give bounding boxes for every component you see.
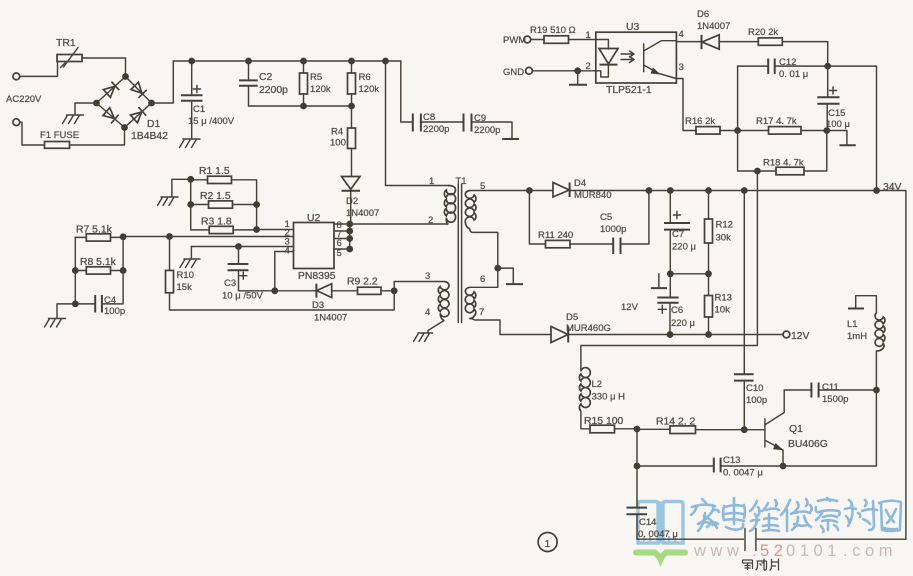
node emitter C13 xyxy=(780,463,787,470)
node C1 top xyxy=(188,58,195,65)
U2 right bus xyxy=(349,224,351,249)
svg-text:1500p: 1500p xyxy=(822,394,848,405)
watermark char zi xyxy=(816,498,840,532)
resistor R7 5.1k xyxy=(76,225,113,242)
node R5 bottom xyxy=(300,103,307,110)
svg-text:C4: C4 xyxy=(104,295,116,306)
resistor R20 2k xyxy=(748,27,782,45)
node R5 top xyxy=(300,58,307,65)
svg-text:5 2: 5 2 xyxy=(760,542,783,560)
wire U2 pin 1 xyxy=(257,229,294,231)
wire U3 pin4 to D6 xyxy=(676,41,701,43)
node R9 right xyxy=(391,287,398,294)
svg-text:34V: 34V xyxy=(883,182,902,193)
fuse F1 xyxy=(40,130,79,148)
wire U2 pin 2 long xyxy=(123,236,293,238)
svg-text:U3: U3 xyxy=(626,22,640,33)
svg-text:R6: R6 xyxy=(359,72,371,83)
wire R1 right to bus xyxy=(232,180,257,230)
svg-text:MUR840: MUR840 xyxy=(574,190,612,201)
plate symbol at pin 6 xyxy=(498,268,514,284)
node GND ground xyxy=(574,67,581,74)
wire piezo to right rail xyxy=(757,538,906,540)
svg-text:3: 3 xyxy=(425,271,430,282)
capacitor C8 2200p xyxy=(413,112,450,135)
wire pin6 node to lower secondary xyxy=(470,268,498,287)
wire fuse to bridge bottom xyxy=(70,128,125,146)
svg-text:0. 0047 μ: 0. 0047 μ xyxy=(723,468,763,479)
wire R8 right xyxy=(111,270,124,272)
wire U3 pin3 down to R16 xyxy=(676,79,696,131)
diode D4 MUR840 xyxy=(553,178,612,201)
diode D3 1N4007 xyxy=(312,284,347,324)
ground U3 xyxy=(577,71,579,85)
svg-text:1N4007: 1N4007 xyxy=(697,21,730,32)
svg-text:120k: 120k xyxy=(359,84,380,95)
wire TR1 to bridge top xyxy=(82,58,126,77)
watermark char wei xyxy=(750,500,779,531)
resistor R6 120k xyxy=(348,61,380,106)
svg-text:0 1 0 1: 0 1 0 1 xyxy=(786,542,836,560)
svg-text:w w w: w w w xyxy=(693,542,739,560)
node bridge top xyxy=(122,73,129,80)
wire D5 to 12V terminal xyxy=(568,334,783,336)
resistor R18 4.7k xyxy=(763,158,804,175)
svg-text:4: 4 xyxy=(425,307,430,318)
wire branch to R11 xyxy=(529,191,545,245)
svg-text:R3 1.8: R3 1.8 xyxy=(201,217,232,228)
resistor R8 5.1k xyxy=(80,257,117,274)
svg-text:TLP521-1: TLP521-1 xyxy=(606,85,652,96)
svg-text:L1: L1 xyxy=(847,319,858,330)
resistor R1 1.5 xyxy=(199,166,232,184)
watermark char dian xyxy=(723,498,745,530)
book icon spine xyxy=(658,502,663,544)
svg-text:PWM: PWM xyxy=(503,35,526,46)
node U2 pin4 joint xyxy=(271,287,278,294)
svg-text:2: 2 xyxy=(428,215,433,226)
wire C15 node to ground xyxy=(827,131,847,145)
svg-text:100p: 100p xyxy=(746,395,767,406)
svg-text:R19 510 Ω: R19 510 Ω xyxy=(530,25,576,36)
wire R7 right xyxy=(111,236,124,238)
resistor R11 240 xyxy=(538,230,573,248)
node C5 branch right xyxy=(646,187,653,194)
resistor R5 120k xyxy=(300,61,331,106)
terminal PWM xyxy=(524,36,531,43)
node R1 left xyxy=(187,176,194,183)
node C7 top xyxy=(667,187,674,194)
ic U2 PN8395 xyxy=(285,213,342,282)
wire L2 to R15 xyxy=(581,411,590,429)
node C7 bottom xyxy=(667,270,674,277)
capacitor C7 220u xyxy=(664,191,696,274)
terminal GND xyxy=(526,67,533,74)
node U2 pin 8 xyxy=(346,221,353,228)
svg-text:C15: C15 xyxy=(828,108,845,119)
wire rail corner to C8 xyxy=(401,61,413,122)
node R12 bottom xyxy=(705,270,712,277)
svg-text:L2: L2 xyxy=(592,379,603,390)
wire rail to T1 pin 1 xyxy=(386,61,449,186)
T1 secondary winding 7 xyxy=(465,287,476,318)
wire bus to T1 pin 2 xyxy=(350,223,448,225)
wire bridge right to HV rail xyxy=(152,61,174,103)
svg-text:100: 100 xyxy=(330,138,346,149)
capacitor C14 0.0047u xyxy=(627,466,678,540)
node R7 right xyxy=(120,233,127,240)
wire bridge left to ground xyxy=(75,103,97,115)
wire R15 to node xyxy=(615,428,638,430)
svg-text:2200p: 2200p xyxy=(259,85,288,96)
node C10 top xyxy=(741,187,748,194)
svg-text:AC220V: AC220V xyxy=(6,94,42,105)
wire terminal to TR1 xyxy=(20,62,58,77)
inductor L1 1mH xyxy=(847,313,885,351)
wire HV rail xyxy=(173,60,400,62)
wire R17 right xyxy=(801,130,827,132)
node bridge right xyxy=(148,100,155,107)
node R13 bottom xyxy=(705,331,712,338)
wire C14 to piezo xyxy=(637,538,744,540)
wire T1 pin 6 xyxy=(470,229,498,268)
T1 primary winding 1-2 xyxy=(444,186,455,225)
left bus R7 R8 C4 xyxy=(74,237,76,304)
node R8 left xyxy=(72,267,79,274)
bridge rectifier D1 1B4B42 xyxy=(97,77,169,143)
ground T1 pin 4 xyxy=(414,333,433,342)
wire R20 to C15 node xyxy=(782,42,827,67)
wire U2 pin 6 xyxy=(334,238,350,240)
wire node to T1 pin 3 xyxy=(394,282,444,291)
node C13 left xyxy=(634,463,641,470)
diode D2 1N4007 xyxy=(342,177,380,220)
diode D5 MUR460G xyxy=(551,312,611,343)
wire U2 pin 8 xyxy=(334,223,350,225)
node bridge bottom xyxy=(121,124,128,131)
svg-text:Q1: Q1 xyxy=(789,424,803,435)
svg-text:R7 5.1k: R7 5.1k xyxy=(76,225,113,236)
svg-text:R10: R10 xyxy=(177,270,194,281)
ground bottom left xyxy=(45,319,66,328)
transformer T1 xyxy=(425,176,485,323)
svg-text:R5: R5 xyxy=(310,72,322,83)
svg-text:1mH: 1mH xyxy=(847,331,867,342)
svg-text:220 μ: 220 μ xyxy=(672,242,696,253)
svg-text:R9 2.2: R9 2.2 xyxy=(347,277,378,288)
svg-text:15k: 15k xyxy=(177,282,193,293)
node C12 right xyxy=(824,63,831,70)
svg-text:C14: C14 xyxy=(639,517,656,528)
svg-text:30k: 30k xyxy=(716,233,732,244)
svg-text:7: 7 xyxy=(479,307,484,318)
node R18 left xyxy=(754,168,761,175)
svg-text:R18 4. 7k: R18 4. 7k xyxy=(763,158,804,169)
capacitor C12 0.01u xyxy=(738,57,828,80)
wire R16R17 node down to R18 xyxy=(738,131,776,172)
wire L1 top plate symbol xyxy=(856,296,877,313)
svg-text:C2: C2 xyxy=(259,72,273,83)
watermark char liao xyxy=(845,500,877,530)
node bridge left xyxy=(93,100,100,107)
resistor R12 30k xyxy=(705,191,733,274)
wire D4 cathode rail 34V xyxy=(570,191,906,540)
svg-text:R1 1.5: R1 1.5 xyxy=(199,166,230,177)
wire R9 right xyxy=(381,290,394,292)
T1 primary winding 3-4 xyxy=(438,282,449,321)
terminal AC input upper xyxy=(13,73,20,80)
node R2 left xyxy=(187,201,194,208)
svg-text:100 μ: 100 μ xyxy=(826,119,850,130)
resistor R3 1.8 xyxy=(201,217,233,234)
svg-text:BU406G: BU406G xyxy=(788,439,828,450)
node R15 right xyxy=(634,426,641,433)
wire R2 left xyxy=(191,204,209,206)
svg-text:C13: C13 xyxy=(723,455,740,466)
node C10 bottom xyxy=(741,426,748,433)
wire R14 to Q1 base xyxy=(696,429,765,431)
svg-text:C12: C12 xyxy=(779,57,796,68)
svg-text:R12: R12 xyxy=(716,220,733,231)
wire C5 to rail xyxy=(621,191,649,245)
node T1 pin 6 xyxy=(494,265,501,272)
wire R16 to R17 xyxy=(720,130,769,132)
resistor R16 2k xyxy=(685,116,720,134)
label circled 1 xyxy=(538,533,557,552)
capacitor C5 1000p xyxy=(600,212,626,254)
node R16 R17 xyxy=(734,127,741,134)
svg-text:D2: D2 xyxy=(346,196,358,207)
diode D6 1N4007 xyxy=(697,9,730,49)
left bus R1-R3 xyxy=(191,179,210,230)
resistor R15 100 xyxy=(584,416,624,433)
optocoupler U3 TLP521-1 xyxy=(586,22,684,96)
wire C9 to ground xyxy=(472,122,513,139)
watermark char xiu xyxy=(781,499,812,531)
wire C8 to C9 xyxy=(421,121,463,123)
wire R1 left xyxy=(191,179,208,181)
svg-text:R20 2k: R20 2k xyxy=(748,27,778,38)
svg-text:100p: 100p xyxy=(104,306,125,317)
node U2 pin 6 xyxy=(346,235,353,242)
svg-text:PN8395: PN8395 xyxy=(298,271,336,282)
node R2 right xyxy=(253,201,260,208)
wire U2 pin 4 xyxy=(275,252,294,291)
node R10 top xyxy=(166,233,173,240)
svg-text:6: 6 xyxy=(480,274,485,285)
node R12 top xyxy=(705,187,712,194)
resistor R19 510 xyxy=(530,25,576,43)
node C15 bottom xyxy=(823,127,830,134)
wire C12 left to R16R17 xyxy=(737,66,739,130)
wire C4 node to ground xyxy=(57,304,75,318)
ground R1 xyxy=(158,197,179,206)
node C11 right xyxy=(873,387,880,394)
svg-text:D5: D5 xyxy=(566,312,578,323)
watermark char jia xyxy=(691,499,719,531)
capacitor C10 100p xyxy=(734,191,767,430)
ground C9 xyxy=(502,138,519,140)
wire R18 right up to C15 node xyxy=(804,131,827,172)
wire C7 bottom to R12 bottom xyxy=(670,273,708,275)
resistor R9 2.2 xyxy=(347,277,381,295)
wire R10 bottom long xyxy=(170,291,395,310)
svg-text:R17 4. 7k: R17 4. 7k xyxy=(756,116,797,127)
node U2 pin 5 xyxy=(346,246,353,253)
resistor R17 4.7k xyxy=(756,116,801,134)
wire U2 pin 5 xyxy=(334,248,350,250)
resistor R2 1.5 xyxy=(200,191,233,208)
svg-text:0. 01 μ: 0. 01 μ xyxy=(779,69,808,80)
wire terminal to fuse xyxy=(20,122,45,145)
wire R19 to U3 pin1 xyxy=(569,39,596,41)
node C2 top xyxy=(245,58,252,65)
terminal AC input lower xyxy=(13,119,20,126)
resistor R13 10k xyxy=(705,274,732,335)
svg-text:3: 3 xyxy=(679,62,684,73)
svg-text:12V: 12V xyxy=(621,302,639,313)
svg-text:1: 1 xyxy=(545,539,551,550)
wire PWM to R19 xyxy=(531,39,544,41)
piezo transducer xyxy=(745,529,756,551)
svg-text:R13: R13 xyxy=(715,293,732,304)
wire R18 node riser down to L2 xyxy=(581,171,758,371)
transistor Q1 BU406G xyxy=(765,390,828,466)
resistor R10 15k xyxy=(166,237,194,294)
capacitor C4 100p xyxy=(75,295,125,317)
plate symbol at C6 xyxy=(658,274,660,288)
node R3 right xyxy=(253,226,260,233)
node C6 bottom xyxy=(667,331,674,338)
svg-text:C11: C11 xyxy=(822,382,839,393)
wire T1 pin 7 to D5 xyxy=(470,319,551,335)
svg-text:0. 0047 μ: 0. 0047 μ xyxy=(638,529,678,540)
wire R8 left xyxy=(75,270,86,272)
svg-text:C3: C3 xyxy=(224,278,236,289)
svg-text:R16 2k: R16 2k xyxy=(685,116,715,127)
svg-text:2200p: 2200p xyxy=(423,124,449,135)
wire U2 pin 7 xyxy=(334,230,350,232)
svg-text:. c o m: . c o m xyxy=(843,542,893,560)
capacitor C9 2200p xyxy=(464,113,501,136)
svg-text:GND: GND xyxy=(503,67,524,78)
wire lower rail C2-R5-R6 xyxy=(249,105,352,107)
wire D2 to U2 bus xyxy=(350,191,352,224)
wire GND to U3 pin2 xyxy=(532,70,595,72)
capacitor C2 xyxy=(239,61,288,106)
svg-text:330 μ H: 330 μ H xyxy=(592,392,626,403)
svg-text:2200p: 2200p xyxy=(474,125,500,136)
wire R2 right xyxy=(233,204,257,206)
wire node to R14 xyxy=(637,428,670,430)
thermistor TR1 xyxy=(56,38,82,68)
svg-text:1: 1 xyxy=(429,176,434,187)
svg-text:D1: D1 xyxy=(147,119,161,130)
label zhendongpian (piezo disc) xyxy=(743,559,779,571)
svg-text:D6: D6 xyxy=(697,9,709,20)
book icon blue pages xyxy=(638,502,683,544)
wire R7R8 right bus down to C4 xyxy=(102,237,123,304)
svg-text:R4: R4 xyxy=(331,127,343,138)
wire R4 to D2 xyxy=(351,149,353,177)
ground bridge left xyxy=(63,115,84,124)
svg-text:C6: C6 xyxy=(671,305,683,316)
svg-text:R8 5.1k: R8 5.1k xyxy=(80,257,117,268)
wire T1 pin 5 to D4 xyxy=(470,190,553,192)
svg-text:10k: 10k xyxy=(715,305,731,316)
terminal 12V output xyxy=(783,331,790,338)
capacitor C6 220u xyxy=(657,274,695,335)
svg-text:R11 240: R11 240 xyxy=(538,230,573,241)
node R8 right xyxy=(120,267,127,274)
svg-text:R2 1.5: R2 1.5 xyxy=(200,191,231,202)
svg-text:120k: 120k xyxy=(310,84,331,95)
wire C12 node to 34V rail xyxy=(828,66,877,190)
wire R1 node to ground xyxy=(172,179,191,196)
svg-text:TR1: TR1 xyxy=(56,38,76,49)
wire R15 node down to C13 xyxy=(636,429,638,466)
wire R11 to C5 xyxy=(570,243,613,245)
resistor R4 100 xyxy=(330,106,356,149)
svg-text:1: 1 xyxy=(586,30,591,41)
wire L1 bottom rail to emitter xyxy=(783,351,876,466)
svg-text:U2: U2 xyxy=(307,213,321,224)
svg-text:D3: D3 xyxy=(312,300,324,311)
node T1 pin1 drop xyxy=(382,58,389,65)
svg-text:C5: C5 xyxy=(600,212,612,223)
svg-text:C7: C7 xyxy=(672,229,684,240)
node R11 branch left xyxy=(526,187,533,194)
watermark url www.520101.com xyxy=(693,542,893,560)
node R6 bottom xyxy=(348,103,355,110)
svg-text:C10: C10 xyxy=(746,383,763,394)
node C4 left xyxy=(72,301,79,308)
svg-text:15 μ /400V: 15 μ /400V xyxy=(188,116,235,127)
svg-text:10 μ /50V: 10 μ /50V xyxy=(222,291,264,302)
svg-text:F1 FUSE: F1 FUSE xyxy=(40,130,79,141)
svg-text:220 μ: 220 μ xyxy=(671,318,695,329)
wire D3 to R9 xyxy=(332,290,358,292)
capacitor C3 10u/50V xyxy=(222,247,264,302)
node C3 top xyxy=(235,243,242,250)
svg-text:R14 2. 2: R14 2. 2 xyxy=(656,417,696,428)
node 34V rail xyxy=(873,187,880,194)
capacitor C11 1500p xyxy=(811,382,876,405)
resistor R14 2.2 xyxy=(656,417,696,434)
capacitor C1 xyxy=(181,61,235,139)
svg-text:12V: 12V xyxy=(791,331,810,342)
wire R3 right xyxy=(233,229,256,231)
watermark char wang xyxy=(879,501,901,531)
wire U2 pin 3 xyxy=(191,246,293,248)
node R6 top xyxy=(348,58,355,65)
wire R7 left xyxy=(75,236,86,238)
svg-text:1000p: 1000p xyxy=(600,224,626,235)
capacitor C13 0.0047u xyxy=(637,455,783,479)
svg-text:R15 100: R15 100 xyxy=(584,416,624,427)
svg-text:1N4007: 1N4007 xyxy=(314,313,347,324)
svg-text:4: 4 xyxy=(679,29,684,40)
inductor L2 330uH xyxy=(579,368,625,411)
wire C3 to D3 xyxy=(239,290,317,292)
T1 secondary winding 5-6 xyxy=(465,191,476,230)
svg-text:MUR460G: MUR460G xyxy=(566,323,611,334)
svg-text:D4: D4 xyxy=(574,178,586,189)
node U2 pin 7 xyxy=(346,228,353,235)
ground U2 pin3 xyxy=(180,247,200,268)
ground C1 xyxy=(180,139,201,148)
svg-text:1B4B42: 1B4B42 xyxy=(131,131,168,142)
